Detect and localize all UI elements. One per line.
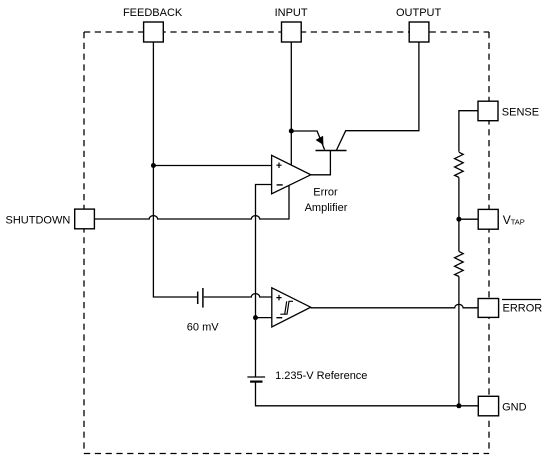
wire tap to VTAP pin (459, 218, 478, 220)
wire transistor emitter lead (291, 131, 324, 150)
wire divider rail R2 to gnd node (458, 276, 460, 405)
resistor R2 (455, 251, 464, 276)
op-amp U1 - input sign (277, 184, 283, 186)
node junction divider bottom / gnd (456, 403, 461, 408)
svg-text:SHUTDOWN: SHUTDOWN (6, 214, 71, 226)
wire INPUT vertical to amplifier top (290, 42, 292, 165)
wire divider rail R1 to VTAP node (458, 177, 460, 251)
pin OUTPUT square (409, 22, 429, 42)
pin SHUTDOWN square (75, 209, 95, 229)
svg-text:60 mV: 60 mV (187, 322, 219, 334)
pin VTAP square (478, 209, 498, 229)
transistor Q1 emitter arrowhead (316, 136, 323, 144)
svg-text:GND: GND (502, 401, 526, 413)
svg-text:FEEDBACK: FEEDBACK (123, 7, 183, 19)
op-amp U1 error amplifier triangle (272, 155, 311, 194)
node junction VTAP tap (456, 217, 461, 222)
node junction - net / comparator - input (253, 315, 258, 320)
svg-text:ERROR: ERROR (503, 303, 543, 315)
node junction feedback/+input (151, 163, 156, 168)
wire comparator - input (256, 317, 272, 319)
svg-text:INPUT: INPUT (275, 7, 308, 19)
pin ERROR square (478, 299, 499, 318)
svg-text:1.235-V Reference: 1.235-V Reference (275, 370, 367, 382)
wire capacitor to comparator + input with hop (204, 294, 272, 297)
pin SENSE square (478, 101, 498, 121)
dashed device boundary (84, 32, 489, 454)
svg-text:Error: Error (313, 186, 338, 198)
pin GND square (478, 396, 498, 416)
wire comparator output to ERROR pin with hop over divider rail (311, 304, 478, 307)
wire reference to ground rail (256, 382, 479, 406)
svg-text:SENSE: SENSE (502, 106, 539, 118)
comparator U2 - input sign (276, 317, 282, 319)
op-amp U1 + input sign (276, 163, 281, 169)
battery 1.235-V reference long plate (247, 376, 265, 378)
svg-text:OUTPUT: OUTPUT (396, 7, 442, 19)
node junction input/emitter (289, 129, 294, 134)
capacitor 60 mV offset left plate (197, 292, 199, 305)
wire error-amp + input from feedback node (153, 165, 271, 167)
wire FEEDBACK vertical net (153, 42, 197, 297)
battery 1.235-V reference short plate (250, 381, 262, 383)
comparator U2 triangle (272, 288, 311, 327)
pin INPUT square (282, 22, 302, 42)
transistor Q1 base bar (316, 150, 347, 152)
wire SHUTDOWN net with crossover hops (94, 185, 289, 219)
wire error-amp - input net down to reference (256, 185, 272, 378)
svg-text:Amplifier: Amplifier (305, 202, 348, 214)
resistor R1 (455, 152, 464, 177)
wire transistor base to error-amp output (311, 151, 331, 175)
capacitor 60 mV offset right plate (202, 288, 204, 308)
comparator U2 + input sign (276, 295, 281, 301)
wire SENSE to divider rail (459, 111, 478, 152)
pin FEEDBACK square (144, 22, 164, 42)
transistor Q1 collector lead (336, 42, 419, 151)
comparator U2 hysteresis symbol (280, 301, 293, 314)
